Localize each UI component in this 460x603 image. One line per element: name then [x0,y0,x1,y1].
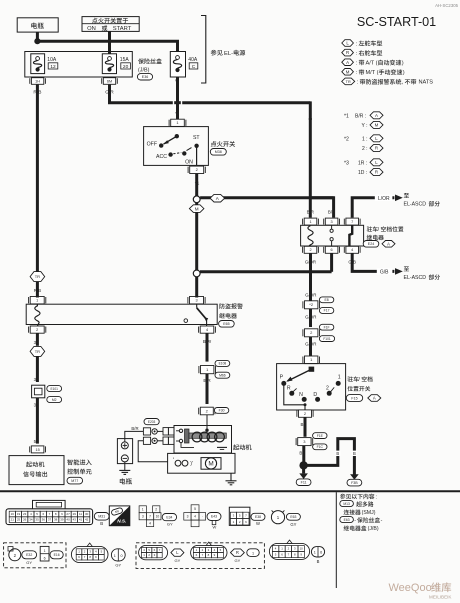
svg-text:E43: E43 [211,515,217,519]
svg-text:F3B: F3B [351,481,358,485]
svg-text:19: 19 [17,512,21,516]
svg-text:A: A [346,60,349,65]
wire battery bus to 40A fuse [37,41,177,52]
pin 1 ignition switch [171,119,185,126]
pin 7 relay [346,218,359,225]
footer big connector M31 body [6,509,93,525]
svg-text:TR: TR [35,349,40,354]
svg-text:4: 4 [194,515,196,519]
svg-text:3: 3 [187,515,189,519]
svg-text:(J/B): (J/B) [368,526,379,532]
svg-text:B: B [299,451,302,456]
svg-text:ON: ON [185,160,193,166]
svg-text:M: M [346,69,350,74]
svg-text:W: W [256,521,260,526]
svg-text:1D :: 1D : [358,170,367,176]
ignition ON-START source box [82,17,139,32]
svg-text:M2: M2 [52,398,57,402]
svg-text:N.S.: N.S. [117,519,126,524]
svg-text:NATS: NATS [419,80,434,86]
wire R/B left column [36,85,39,272]
svg-text:B/R: B/R [328,209,335,214]
connector *2 E8/F17 [305,301,318,309]
svg-text:A: A [387,241,390,246]
svg-text:30: 30 [85,512,89,516]
svg-text:F17: F17 [324,309,330,313]
PNP switch contacts [309,367,315,372]
svg-text:6M: 6M [107,79,112,83]
svg-text:L/OR: L/OR [378,196,390,202]
svg-text:21: 21 [11,518,15,522]
footer big connector M31 tab [33,500,66,509]
svg-text:B/R: B/R [307,209,314,214]
ref oval M31 [94,513,109,521]
separator line [0,490,460,492]
svg-text::: : [356,51,358,57]
svg-text:4: 4 [206,328,208,332]
svg-text:-: - [381,518,383,524]
anti-theft relay switch [196,304,198,308]
anti-theft alarm relay box [26,304,217,324]
footer cross connector E38 [139,506,146,513]
node battery junction [34,38,40,44]
svg-text:15A: 15A [120,57,130,63]
svg-text:E16: E16 [54,553,60,557]
page arrow F3B [350,474,359,480]
legend hex M [342,69,354,76]
label anti-theft relay [219,303,242,309]
svg-text:1: 1 [114,554,116,558]
legend hex R [342,49,354,56]
svg-text:E38: E38 [255,515,261,519]
svg-text:)': )' [190,461,193,467]
svg-text:M77: M77 [71,479,78,483]
svg-text:20: 20 [123,64,129,70]
svg-text:10A: 10A [47,57,57,63]
wire below anti-theft left [36,333,39,346]
svg-text:M13: M13 [343,502,350,506]
pin 3 relay [325,218,338,225]
wire branch to relay pin3 [309,118,312,198]
svg-text:36: 36 [42,518,46,522]
svg-text::: : [357,80,359,86]
node splice circle [193,196,200,203]
svg-text:7: 7 [351,220,353,224]
svg-text:41: 41 [79,518,83,522]
label smart entry control unit [67,459,91,465]
svg-text:E203: E203 [148,420,156,424]
page arrow F11 [302,465,305,473]
svg-text:E101: E101 [50,387,58,391]
ground loop wire [304,439,355,475]
svg-text:C: C [192,64,196,70]
fuse F1 10A [31,54,45,74]
svg-text:4: 4 [149,521,151,525]
svg-text:2 :: 2 : [362,146,368,152]
svg-text::: : [356,41,358,47]
svg-text:1: 1 [309,220,311,224]
svg-text:1: 1 [252,552,254,556]
pin 4 relay [346,246,359,253]
wire pin6 down to splice line [330,253,333,271]
svg-text:1: 1 [314,551,316,555]
hex A on branch [210,194,225,202]
label PNP switch [347,376,358,381]
hex L ref [171,549,184,556]
arrow to EL-ASCD bottom [395,268,403,275]
svg-text:27: 27 [66,512,70,516]
legend hex L [342,40,354,47]
svg-text:/: / [358,377,360,383]
hex M below node [195,203,198,205]
svg-text:26: 26 [23,518,27,522]
svg-text:SC-START-01: SC-START-01 [357,15,436,29]
starter motor box [168,453,235,473]
svg-text:MEILIBEIK: MEILIBEIK [429,595,452,600]
wire B/W from anti-theft [206,333,209,361]
ignition switch contacts [175,134,179,138]
svg-text:GY: GY [290,522,296,527]
svg-text:6: 6 [44,556,46,560]
svg-text:37: 37 [48,518,52,522]
svg-text:34: 34 [29,518,33,522]
motor ground [230,473,232,481]
terminal connector pair 1 [144,419,159,425]
svg-text:F1E: F1E [317,434,324,438]
svg-text:(SMJ): (SMJ) [362,510,376,516]
svg-text:F15: F15 [351,396,357,400]
footer dashed group 1 [4,543,66,568]
small oval connector F12 [111,549,125,561]
svg-text:Y :: Y : [362,123,368,129]
legend hex A [342,59,354,66]
svg-text:ACC: ACC [156,154,167,160]
svg-text:B: B [301,422,304,427]
wire ignition sw down to node [195,174,198,196]
label ignition switch [211,141,235,147]
connector 3 F1E/F1C [298,438,311,446]
pin 1H below F1 [31,78,43,85]
wire 40A fuse down to ignition switch [176,77,179,120]
svg-text:1: 1 [142,507,144,511]
terminal connector pair 2 [143,437,150,444]
svg-text:2: 2 [326,386,329,392]
svg-text:M31: M31 [98,515,105,519]
wire M main line down [195,212,198,270]
PNP switch box [277,364,346,410]
wire pin4 G/B out [352,253,394,271]
svg-text:5: 5 [194,507,196,511]
solenoid internal ground [217,446,227,448]
N.S. marker box [109,506,130,526]
wire splice horizontal from node [200,270,332,273]
pin 6 relay [325,246,338,253]
smart entry starter output box [9,456,64,485]
svg-text:B/W: B/W [203,339,212,344]
connector 2 F1F/F101 [305,329,318,337]
ignition switch box [144,127,209,166]
svg-text:F11: F11 [301,481,307,485]
svg-text:1: 1 [36,299,38,303]
pin 2 relay [304,246,317,253]
svg-text:0: 0 [121,554,123,558]
svg-text:W: W [213,525,217,530]
oval connector M31b [71,546,108,562]
relay switch contact [331,225,333,229]
svg-text:11: 11 [79,512,82,516]
anti-theft relay coil [35,304,40,326]
svg-text:GY: GY [115,562,121,567]
hex R ref [231,549,245,556]
box connector E16 [40,546,49,561]
svg-text:-: - [354,518,356,524]
svg-text:43: 43 [73,518,77,522]
motor M [201,458,221,470]
hex TR on R/B wire [30,272,45,282]
svg-text:M: M [195,206,199,211]
pin 3 anti-theft relay top right [190,297,204,304]
pin 2 ignition switch [190,166,204,173]
svg-text:TR: TR [35,274,40,279]
svg-text:3: 3 [331,220,333,224]
fuse F3 40A [170,52,185,78]
pin 2 PNP switch [299,410,312,417]
bracket see EL-POWER [201,16,206,84]
pin 15 smart entry [31,446,44,453]
svg-text:E65: E65 [223,322,229,326]
connector E101/M2 smart entry [32,385,45,398]
relay contact bar [349,225,352,246]
svg-text:39: 39 [60,518,64,522]
svg-text:·: · [202,515,203,519]
park/neutral relay box [301,225,364,246]
label fuse box J/B [138,58,162,64]
svg-text:B: B [100,521,103,526]
svg-text::: : [376,494,377,500]
svg-text:G/B: G/B [380,270,389,276]
svg-text:1: 1 [44,549,46,553]
svg-text:EL-: EL- [224,51,233,57]
svg-text:B/R: B/R [203,378,210,383]
footer round connector E63 [271,511,284,524]
svg-text:M: M [208,461,213,468]
svg-text:F101: F101 [323,337,330,341]
svg-text:E63: E63 [344,518,350,522]
svg-text::: : [356,61,358,67]
svg-text:): ) [402,61,404,67]
svg-text:F1C: F1C [317,445,324,449]
svg-text:P: P [280,375,284,381]
svg-text:4: 4 [351,248,353,252]
svg-text:OFF: OFF [147,141,157,147]
wire relay pin1 down [309,198,312,218]
pin 1 anti-theft relay [30,297,44,304]
svg-text:E8: E8 [325,298,329,302]
svg-text:D: D [313,392,317,398]
pin 4 anti-theft relay bottom [200,326,214,333]
svg-text:GY: GY [175,558,181,563]
relay coil [308,226,313,248]
small oval F11 [247,549,259,557]
svg-text:2: 2 [309,248,311,252]
svg-text:40A: 40A [188,57,198,63]
svg-text:G/OR: G/OR [305,293,316,298]
svg-text:F1F: F1F [324,325,330,329]
solenoid coil [192,432,202,442]
svg-text:23: 23 [23,512,27,516]
svg-text:ON: ON [87,26,96,32]
svg-text:16: 16 [11,512,15,516]
starter solenoid box [174,426,232,454]
svg-text:R: R [287,386,291,392]
wire thin to starter solenoid [206,415,208,429]
svg-text:7: 7 [149,514,151,518]
svg-text:EL-ASCD: EL-ASCD [404,275,427,281]
svg-text:F30: F30 [219,409,225,413]
wire node to anti-theft relay [195,277,198,298]
oval connector F101 [191,545,227,559]
svg-text:R: R [375,170,378,175]
pin 6M below F2 [103,78,115,85]
solenoid contact to ground wire [181,443,194,448]
battery box B1 [17,18,58,32]
wire A-branch to relay [200,196,334,199]
pin 2 anti-theft relay bottom left [30,326,44,333]
svg-text:N: N [299,392,303,398]
svg-text:GY: GY [26,560,32,565]
svg-text::: : [356,70,358,76]
svg-text:35: 35 [35,518,39,522]
svg-text:WeeQoo: WeeQoo [389,582,432,594]
svg-text:M38: M38 [215,150,222,154]
fuse box J/B outline [25,52,133,78]
svg-text:3: 3 [142,514,144,518]
svg-text:,: , [402,80,404,86]
svg-text:M/T (: M/T ( [366,70,379,76]
footer dashed group 2 [136,543,264,569]
svg-text:6: 6 [320,551,322,555]
fuse F2 15A [102,54,116,74]
battery to solenoid wire B/R [125,431,144,442]
footer reference text [340,494,374,499]
svg-text:B: B [353,451,356,456]
svg-text:E63: E63 [290,515,296,519]
PNP switch P to pin2 wire [284,385,305,410]
svg-text:R: R [375,146,378,151]
svg-text:E108: E108 [219,362,227,366]
svg-text:B: B [317,559,320,564]
svg-text:E32: E32 [26,553,32,557]
svg-text:29: 29 [73,512,77,516]
svg-text:): ) [403,70,405,76]
svg-text:(J/B): (J/B) [138,68,150,74]
svg-text:': ' [173,458,174,464]
solenoid plunger and contacts [179,429,182,432]
svg-text:A: A [373,396,376,401]
oval connector F30 group3 [269,543,309,559]
svg-text:B: B [336,451,339,456]
svg-text:B/R: B/R [131,426,138,431]
wire 15A fuse to bus [110,85,173,103]
arrow to EL-ASCD top [395,195,403,202]
svg-text:10: 10 [156,514,160,518]
round connector E32 [9,549,21,561]
svg-text:R: R [346,50,349,55]
svg-text:R: R [236,550,239,555]
svg-text:ST: ST [193,135,200,141]
label starter [233,444,251,450]
pin 1 relay [304,218,317,225]
solenoid left attach boxes [163,428,168,435]
svg-text:*1: *1 [344,113,349,119]
svg-text:*3: *3 [344,160,349,166]
wire battery down [36,32,39,40]
footer cross connector E43 [191,505,199,513]
hex TR 2 [30,346,45,356]
svg-text:G/OR: G/OR [305,315,316,320]
svg-text:M66: M66 [219,373,226,377]
solenoid armature shaft [189,433,226,438]
svg-text:1: 1 [338,375,341,381]
svg-text:E24: E24 [368,242,374,246]
wire relay pin7 L/OR out [352,198,394,218]
svg-text:6: 6 [331,248,333,252]
label park/neutral relay [367,226,378,231]
battery ground [124,462,126,471]
svg-text:W: W [175,112,179,116]
wire pin2 G/OR down [309,253,312,300]
svg-text:E34: E34 [166,515,172,519]
small oval connector F33 [311,547,324,557]
svg-text:1 :: 1 : [362,136,368,142]
connector 1 E108/M66 [201,366,214,374]
svg-text:GY: GY [235,558,241,563]
battery starter box [117,439,132,464]
wire ON-START to 15A fuse [108,31,111,55]
svg-text:B/R :: B/R : [355,113,366,119]
svg-text:2: 2 [36,328,38,332]
svg-text:3: 3 [195,299,197,303]
legend hex TR [342,78,355,85]
svg-text:1H: 1H [35,79,40,83]
svg-text:42: 42 [85,518,89,522]
footer grid connector E38 [229,507,250,525]
node splice circle 2 [193,270,200,277]
svg-text:1R :: 1R : [358,160,367,166]
svg-text:*2: *2 [344,136,349,142]
svg-text:GY: GY [167,522,173,527]
svg-text:EL-ASCD: EL-ASCD [404,202,427,208]
svg-text:A: A [375,113,378,118]
connector 2 F30 [200,407,213,415]
oval connector F1F [139,545,168,559]
svg-text:START: START [113,26,132,32]
svg-text:25: 25 [17,518,21,522]
svg-text:AH-SC2305: AH-SC2305 [435,3,459,8]
svg-text:2: 2 [155,507,157,511]
svg-text:G/OR: G/OR [305,342,316,347]
pin 1 PNP switch [305,356,318,364]
svg-text:A/T (: A/T ( [366,61,378,67]
svg-text:/: / [378,227,380,233]
svg-text:10: 10 [300,547,304,551]
footer divider [335,492,337,588]
svg-text:TR: TR [346,80,351,84]
svg-text:40: 40 [66,518,70,522]
svg-text:12: 12 [50,64,56,70]
node ground junction dot [299,461,307,469]
svg-text:E36: E36 [142,75,148,79]
